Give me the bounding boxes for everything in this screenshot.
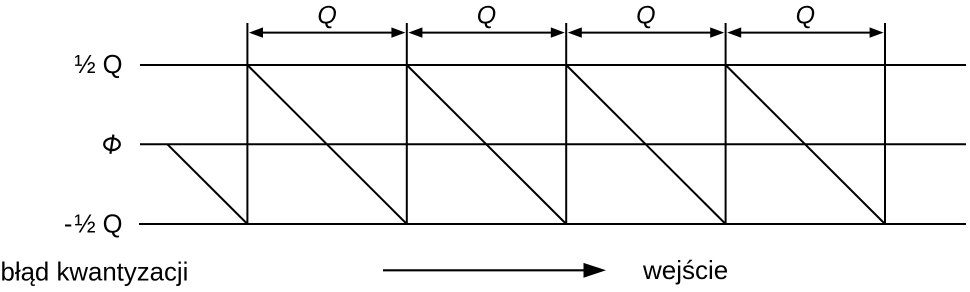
svg-text:½ Q: ½ Q: [74, 51, 122, 79]
svg-text:Q: Q: [317, 2, 336, 30]
level line +1/2 Q: [140, 64, 966, 66]
level line -1/2 Q: [139, 223, 966, 225]
level line 0 (phi): [140, 143, 966, 145]
vertical tick 1: [246, 23, 248, 224]
label phi: [104, 138, 120, 150]
sawtooth diagonal 1: [247, 65, 406, 224]
sawtooth diagonal 0 (partial, starts at phi level): [167, 144, 247, 224]
sawtooth diagonal 4: [726, 65, 885, 224]
svg-text:wejście: wejście: [642, 255, 728, 285]
vertical tick 2: [406, 23, 408, 224]
svg-text:Q: Q: [796, 2, 815, 30]
sawtooth diagonal 2: [407, 65, 566, 224]
vertical tick 3: [565, 23, 567, 224]
sawtooth diagonal 3: [566, 65, 725, 224]
svg-text:Q: Q: [636, 2, 655, 30]
svg-text:błąd kwantyzacji: błąd kwantyzacji: [1, 259, 189, 287]
input axis arrow: [383, 263, 606, 278]
dimension arrow 2: [408, 27, 564, 37]
dimension arrow 1: [249, 27, 405, 37]
svg-text:-½ Q: -½ Q: [64, 211, 123, 239]
dimension arrow 3: [568, 27, 724, 37]
vertical tick 4: [725, 23, 727, 224]
vertical tick 5: [884, 23, 886, 224]
dimension arrow 4: [727, 27, 883, 37]
svg-text:Q: Q: [477, 2, 496, 30]
